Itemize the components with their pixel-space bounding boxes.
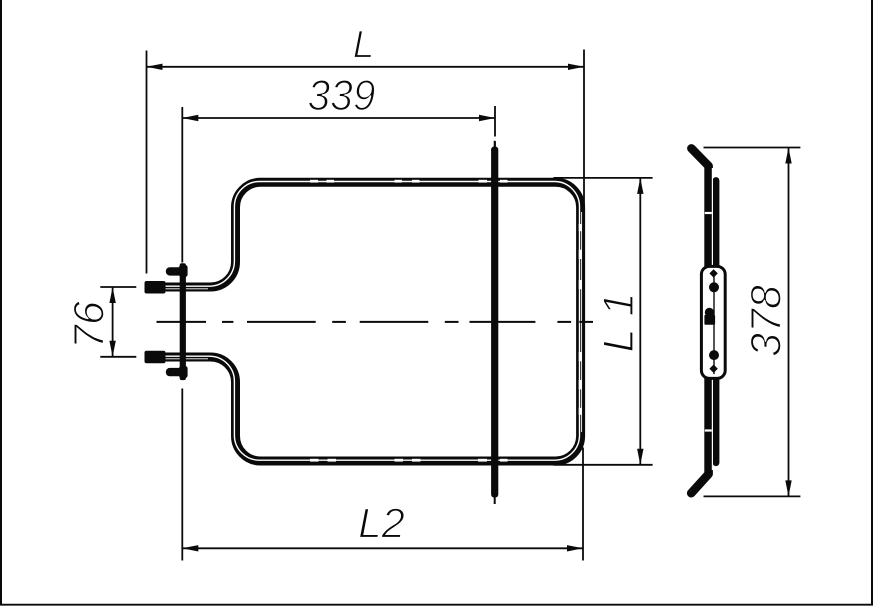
bracket rod (front view) <box>180 263 186 380</box>
side view mounting bracket <box>701 266 725 378</box>
side view far tube <box>713 181 720 463</box>
dimension 76 <box>100 287 136 357</box>
dimension 378 <box>704 148 801 497</box>
border right <box>871 0 873 606</box>
support rod (front view) <box>491 147 498 498</box>
tube inner highlight line <box>147 182 580 461</box>
terminal pin top cap <box>145 281 166 294</box>
tube coil white dashes top run <box>310 180 508 183</box>
center line <box>157 321 594 323</box>
border left <box>0 0 2 606</box>
label 378 <box>751 285 781 356</box>
side view near tube <box>691 148 708 493</box>
dimension L2 <box>182 389 583 561</box>
bracket hole bottom <box>709 350 719 360</box>
terminal pin bottom cap <box>145 351 166 364</box>
label L2 <box>359 508 404 537</box>
bracket hole top <box>709 282 719 292</box>
bracket rivet diamond bottom <box>709 365 717 373</box>
dimension L1 <box>554 178 653 465</box>
border bottom <box>0 604 873 606</box>
tube second wall lines <box>150 212 582 432</box>
label L1 <box>603 296 633 351</box>
rod fitting top <box>166 267 184 275</box>
bracket rivet diamond top <box>709 269 717 277</box>
label 339 <box>309 80 375 110</box>
heating element tube (front view loop) <box>146 182 581 461</box>
label L <box>354 31 372 58</box>
bracket center stud <box>705 308 714 317</box>
dimension 339 <box>182 106 495 263</box>
tube coil white dashes bottom run <box>310 459 508 462</box>
dimension L <box>147 50 585 274</box>
label 76 <box>74 301 104 344</box>
side view tube separation lines <box>711 168 713 470</box>
rod fitting bottom <box>166 368 184 376</box>
tube coil white dashes right run <box>579 224 582 415</box>
